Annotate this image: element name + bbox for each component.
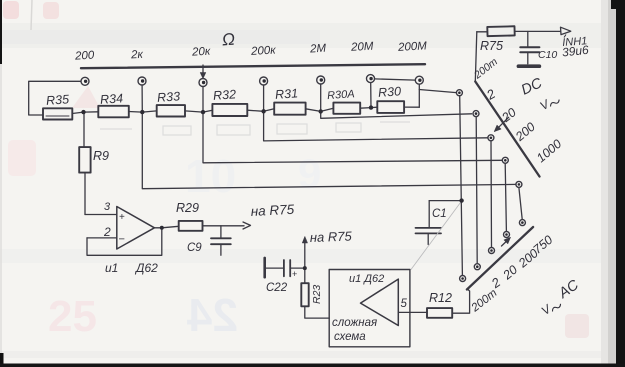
resistor R9 [79, 112, 90, 214]
wire link terminal 20M to terminal 200M [375, 79, 416, 80]
terminal 20k [199, 79, 207, 87]
AC contact 20 [489, 248, 495, 254]
node 20M junction [369, 105, 373, 109]
terminal 200 [81, 77, 89, 85]
scanner ghost echoes under resistor chain [100, 122, 410, 135]
right margin shading [601, 0, 611, 367]
svg-text:R30A: R30A [327, 88, 355, 102]
wire terminal 200M drop [418, 85, 420, 108]
node C22/R23 junction [303, 266, 307, 270]
wire R23 to box input [305, 306, 329, 318]
wire terminal 20M drop [370, 83, 372, 108]
DC contact 200m [456, 90, 462, 96]
vertical crease top-left [31, 0, 32, 30]
resistor R29 [179, 221, 203, 231]
wire R31-R30A [306, 108, 334, 111]
wire DC3 down to AC contact 20 [490, 141, 493, 247]
shadow band top [0, 23, 625, 48]
svg-text:20М: 20М [350, 41, 374, 54]
AC contact 750 [519, 220, 525, 226]
AC contact 2 [474, 264, 480, 270]
node 2M junction [319, 109, 323, 113]
svg-text:и1: и1 [105, 261, 118, 275]
AC switch wiper arrow [502, 237, 511, 246]
op-amp U1 triangle [117, 207, 155, 250]
node 20k junction [201, 110, 205, 114]
svg-text:C22: C22 [266, 282, 288, 294]
svg-text:10: 10 [185, 150, 236, 202]
wire tap 2M node to DC contact 2 [321, 111, 472, 118]
wire left loop 200-terminal to R35 [29, 81, 81, 115]
wire R30 to 200M node [404, 106, 419, 108]
svg-text:R33: R33 [157, 89, 181, 105]
wire terminal 20k drop [202, 87, 204, 112]
svg-text:R30: R30 [378, 84, 402, 100]
AC contact 200m [460, 276, 466, 282]
svg-text:2к: 2к [130, 49, 144, 62]
terminal 200k [260, 77, 268, 85]
terminal 20M [367, 75, 375, 83]
svg-text:C1: C1 [432, 208, 447, 220]
wire R29 to na R75 arrow [203, 222, 251, 229]
faint crease line box corner to C1 node [411, 203, 461, 270]
svg-text:R23: R23 [311, 285, 323, 304]
svg-text:24: 24 [186, 289, 238, 341]
resistor R32 [212, 104, 247, 116]
op-amp block U1 D62 box [329, 270, 410, 347]
svg-text:39и6: 39и6 [561, 43, 589, 60]
svg-text:R29: R29 [176, 201, 199, 215]
svg-text:200М: 200М [397, 40, 428, 54]
svg-text:200: 200 [74, 50, 95, 63]
svg-text:C9: C9 [187, 242, 202, 254]
svg-text:+: + [292, 269, 297, 279]
wire R34-R33 [129, 111, 157, 112]
svg-text:сложная: сложная [332, 317, 377, 329]
wire tap 2k node to DC contact 5 [142, 112, 516, 189]
bus Ω range [81, 64, 425, 68]
wire DC1 down to AC contact 200m [460, 96, 463, 275]
svg-text:+: + [119, 212, 125, 223]
svg-text:25: 25 [48, 292, 97, 341]
wire terminal 2k drop [141, 86, 143, 113]
scanner black edges [0, 0, 2, 64]
resistor R34 [98, 106, 129, 118]
wire R30A-R30 [360, 107, 377, 108]
TEXT-LABELS [46, 30, 590, 343]
svg-text:R31: R31 [275, 86, 299, 102]
svg-text:на R75: на R75 [310, 229, 353, 245]
resistor R31 [274, 103, 305, 115]
wire DC2 down to AC contact 2 [476, 117, 477, 263]
op-amp feedback wire [87, 228, 162, 256]
op-amp output wire [154, 226, 178, 228]
DC contact 200 [502, 157, 508, 163]
wire DC4 down to AC contact 200 [505, 164, 506, 231]
svg-text:Д62: Д62 [134, 261, 158, 275]
red bleed-through marks [3, 1, 19, 19]
resistor R35 [43, 108, 72, 119]
svg-text:R32: R32 [213, 87, 237, 103]
arrow na R75 (bottom) [302, 237, 307, 269]
op-amp pin3 wire [85, 214, 117, 216]
svg-text:R12: R12 [429, 291, 452, 305]
wire R35-R34 [72, 112, 98, 114]
capacitor C10 [518, 32, 539, 67]
resistor R12 [427, 308, 452, 318]
capacitor C1 [416, 201, 460, 245]
node R35/R34 junction [81, 110, 85, 114]
svg-text:R9: R9 [93, 149, 109, 163]
DC contact 2 [473, 111, 479, 117]
DC switch wiper arrow [494, 117, 508, 131]
wire terminal 2M drop [320, 85, 322, 112]
AC contact 200 [504, 232, 510, 238]
svg-text:и1 Д62: и1 Д62 [349, 273, 384, 285]
DC contact 1000 [516, 181, 522, 187]
svg-text:R35: R35 [46, 92, 70, 108]
capacitor C22 [265, 258, 305, 277]
node 200k junction [261, 109, 265, 113]
node C1 junction [459, 198, 463, 202]
wire 200M node to DC contact 1 [419, 90, 456, 93]
capacitor C9 [211, 226, 231, 255]
svg-text:C10: C10 [538, 49, 557, 61]
shadow band middle [0, 249, 625, 263]
node op-amp output junction [160, 226, 164, 230]
svg-text:5: 5 [401, 298, 408, 310]
svg-text:2М: 2М [309, 43, 327, 56]
resistor R30 [377, 101, 404, 113]
wire R33-R32 [185, 110, 212, 112]
resistor R30A [333, 103, 360, 114]
svg-text:на R75: на R75 [250, 202, 295, 219]
shadow band low [0, 351, 625, 358]
resistor R23 [301, 268, 308, 306]
wire DC5 down to AC contact 750 [519, 188, 522, 220]
node 2k junction [140, 110, 144, 114]
wire AC wiper to R12 [452, 289, 469, 313]
wire tap 20k node to DC contact 4 [203, 112, 502, 163]
wire R75 to INH1 arrow [515, 27, 571, 34]
terminal 200M [415, 76, 423, 84]
svg-text:R34: R34 [100, 91, 124, 107]
resistor R33 [157, 105, 185, 116]
op-amp pin2 wire [87, 237, 117, 239]
wire terminal 200k drop [263, 86, 265, 112]
op-amp U1 D62 triangle (points left) [361, 279, 399, 325]
DC contact 20 [488, 135, 494, 141]
DC switch wiper line [475, 82, 539, 177]
svg-text:Ω: Ω [221, 30, 235, 50]
arrow bus-to-20k terminal [200, 65, 206, 79]
terminal 2M [317, 76, 325, 84]
svg-text:R75: R75 [480, 39, 503, 53]
svg-text:9: 9 [298, 150, 321, 197]
wire R75 left down to DC switch [475, 32, 477, 82]
svg-text:схема: схема [334, 331, 366, 343]
resistor R75 [477, 26, 515, 36]
AC switch wiper line [467, 227, 533, 290]
wire R12 to op-amp box [398, 311, 427, 313]
svg-text:200к: 200к [250, 45, 277, 58]
svg-text:2: 2 [103, 225, 111, 239]
terminal 2k [138, 77, 146, 85]
wire tap 200k node to DC contact 3 [264, 111, 488, 141]
terminals top row [81, 75, 525, 282]
svg-text:3: 3 [104, 201, 111, 213]
svg-text:−: − [119, 234, 125, 246]
svg-text:20к: 20к [191, 46, 211, 59]
wire R32-R31 [247, 109, 274, 112]
